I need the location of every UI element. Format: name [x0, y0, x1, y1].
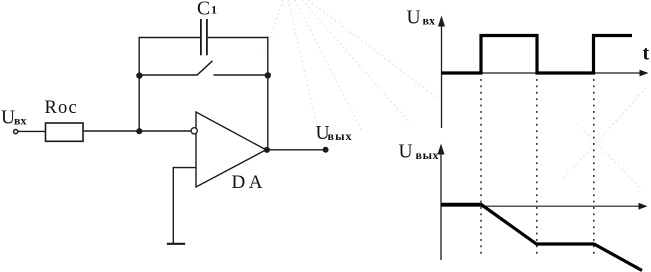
wire input terminal to resistor	[18, 130, 45, 132]
svg-text:вх: вх	[14, 113, 26, 127]
svg-text:U: U	[399, 142, 413, 163]
svg-text:U: U	[407, 7, 421, 28]
svg-text:t: t	[643, 42, 650, 64]
node junction switch right	[265, 72, 271, 78]
svg-text:Roc: Roc	[45, 98, 78, 118]
dotted timing line 2	[536, 79, 538, 258]
ground	[167, 243, 185, 245]
svg-text:C: C	[197, 0, 210, 20]
wire output	[267, 149, 324, 151]
switch SA blade	[197, 61, 213, 76]
faint crease line A	[264, 0, 283, 55]
label Uvx (input voltage)	[1, 108, 26, 129]
node output junction	[264, 147, 270, 153]
bottom graph X axis	[441, 203, 648, 210]
label Uvyx (output voltage)	[316, 123, 353, 144]
svg-text:1: 1	[211, 2, 217, 16]
op-amp DA triangle	[196, 112, 266, 187]
wire resistor to inverting input	[83, 130, 191, 132]
node junction switch left	[136, 72, 142, 78]
output ramp waveform	[441, 204, 642, 270]
svg-text:вых: вых	[416, 148, 440, 162]
wire switch branch left	[139, 74, 197, 76]
svg-text:U: U	[1, 108, 15, 129]
inverting input bubble	[191, 128, 197, 134]
wire non-inverting input	[173, 167, 196, 244]
input square waveform	[442, 36, 633, 74]
faint crease line F	[302, 0, 410, 123]
faint crease line B	[288, 0, 318, 130]
bottom graph Y axis	[438, 144, 445, 261]
dotted timing line 1	[480, 79, 482, 258]
resistor Roc	[46, 123, 84, 141]
top graph Y axis	[438, 16, 445, 129]
faint crease line G	[308, 0, 439, 99]
dotted timing line 3	[593, 79, 595, 258]
input terminal	[14, 130, 18, 134]
faint crease line D	[562, 88, 646, 180]
label Uvyx axis (bottom graph)	[399, 142, 440, 163]
capacitor C1	[201, 19, 207, 55]
wire left feedback rail	[138, 37, 140, 131]
node junction at inverting input	[136, 128, 142, 134]
label Uvx axis (top graph)	[407, 7, 435, 28]
wire switch branch right	[214, 74, 268, 76]
svg-text:вх: вх	[423, 13, 435, 27]
label C1	[197, 0, 217, 20]
wire top branch right	[208, 37, 269, 39]
svg-text:вых: вых	[328, 129, 353, 143]
output terminal	[323, 147, 328, 152]
svg-text:DA: DA	[232, 172, 266, 193]
faint crease line C	[295, 0, 362, 131]
faint crease line E	[578, 124, 642, 190]
top graph X axis	[442, 70, 649, 77]
wire right feedback rail	[267, 37, 269, 150]
wire top branch left	[139, 37, 201, 39]
